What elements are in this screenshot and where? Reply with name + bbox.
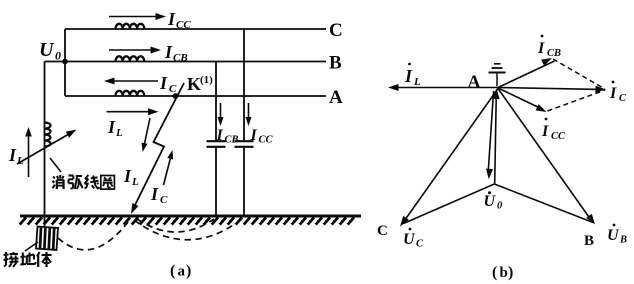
svg-text:L: L xyxy=(16,155,24,167)
svg-text:I: I xyxy=(159,73,168,93)
dashed earth current path fault to CC xyxy=(134,219,242,240)
arrow current IL fault xyxy=(142,118,151,152)
svg-text:): ) xyxy=(186,263,191,280)
svg-text:CC: CC xyxy=(551,131,566,142)
svg-text:C: C xyxy=(160,194,168,206)
svg-text:I: I xyxy=(167,9,176,29)
svg-text:(1): (1) xyxy=(200,74,213,86)
svg-text:U: U xyxy=(484,193,497,210)
svg-text:CC: CC xyxy=(176,19,191,31)
ground symbol phasor xyxy=(489,64,506,86)
svg-text:I: I xyxy=(609,85,617,102)
inductor phase A xyxy=(116,91,145,96)
svg-text:I: I xyxy=(404,66,413,86)
label Ic xyxy=(159,73,177,95)
arrow current Ic on phase A xyxy=(104,78,158,85)
svg-text:I: I xyxy=(8,145,17,165)
svg-text:U: U xyxy=(607,227,620,244)
wire capacitor CB branch upper xyxy=(215,62,217,142)
wire phase line A xyxy=(65,95,326,97)
svg-text:CB: CB xyxy=(547,48,561,59)
arc suppression coil L xyxy=(45,123,51,147)
label C phasor xyxy=(377,223,388,239)
dashed earth current path electrode to fault xyxy=(58,222,128,250)
leader line coil label xyxy=(50,158,61,172)
label phasor IL xyxy=(404,63,421,88)
label (a) xyxy=(170,263,191,280)
label phase C xyxy=(329,20,343,41)
label UB phasor xyxy=(607,224,627,246)
wire phase line C xyxy=(65,28,326,30)
phasor UB vector xyxy=(498,89,595,225)
svg-text:(: ( xyxy=(492,264,497,281)
label IL mid xyxy=(107,117,123,139)
wire capacitor CC branch lower xyxy=(243,147,245,216)
label fault K(1) xyxy=(187,74,213,94)
svg-text:L: L xyxy=(413,76,421,88)
label (b) xyxy=(492,264,513,281)
arrow current Ic fault xyxy=(164,150,174,185)
svg-text:(: ( xyxy=(170,263,175,280)
svg-text:U: U xyxy=(403,231,416,248)
phasor UA up arrow xyxy=(493,89,500,184)
wire fault lightning path xyxy=(131,83,184,214)
svg-text:A: A xyxy=(329,87,343,108)
svg-text:C: C xyxy=(329,20,343,41)
arrow current IL mid xyxy=(107,108,159,115)
label UC phasor xyxy=(403,228,424,250)
phasor UC vector xyxy=(400,89,498,227)
svg-text:B: B xyxy=(584,233,594,249)
svg-text:I: I xyxy=(216,127,224,144)
label ICC phasor xyxy=(541,118,566,142)
label B phasor xyxy=(584,233,594,249)
label Icc xyxy=(167,9,191,31)
svg-text:CB: CB xyxy=(173,52,188,64)
label U0 phasor xyxy=(484,191,504,211)
inductor phase C xyxy=(116,24,145,29)
svg-text:CC: CC xyxy=(259,135,274,146)
wire phase line B xyxy=(45,61,327,63)
svg-text:L: L xyxy=(131,176,139,188)
dashed parallelogram ICB to IC xyxy=(553,59,605,89)
label IL left xyxy=(8,145,24,167)
label jiediti (grounding electrode) xyxy=(4,252,52,267)
label Ic fault xyxy=(150,184,168,206)
wire capacitor CC branch upper xyxy=(243,29,245,141)
arrow current Icc on phase C xyxy=(109,13,166,20)
svg-text:b: b xyxy=(500,265,508,281)
capacitor CC xyxy=(235,141,254,147)
svg-text:): ) xyxy=(508,264,513,281)
phasor IC vector xyxy=(498,86,606,93)
capacitor CB xyxy=(207,141,226,147)
label ICB phasor xyxy=(537,35,561,59)
svg-text:L: L xyxy=(115,127,123,139)
svg-text:CB: CB xyxy=(225,135,239,146)
wire N to C xyxy=(404,184,495,224)
svg-text:I: I xyxy=(150,184,159,204)
dashed earth current path fault to CB xyxy=(137,219,214,232)
svg-text:I: I xyxy=(164,42,173,62)
label Icb capacitor xyxy=(216,127,239,146)
ground surface line xyxy=(20,215,361,218)
wire N to B xyxy=(494,184,593,223)
svg-text:I: I xyxy=(107,117,116,137)
phasor IL arrow xyxy=(388,84,498,91)
label point A xyxy=(468,72,481,92)
svg-text:0: 0 xyxy=(497,201,503,212)
arrow current Icc capacitor xyxy=(246,103,252,126)
node fault on phase A xyxy=(173,93,179,99)
wire source bus vertical xyxy=(64,29,66,96)
svg-text:C: C xyxy=(377,223,388,239)
svg-text:I: I xyxy=(541,123,549,140)
arrow current Icb on phase B xyxy=(109,47,161,54)
label Icc capacitor xyxy=(250,127,274,146)
svg-text:A: A xyxy=(468,72,481,92)
svg-text:U: U xyxy=(39,39,55,61)
label xiaohuxianquan (arc suppression coil) xyxy=(53,175,115,189)
svg-text:I: I xyxy=(537,40,545,57)
leader line electrode label xyxy=(25,242,38,251)
inductor phase B xyxy=(116,56,145,61)
arrow adjustable coil xyxy=(17,130,77,165)
label phase A xyxy=(329,87,343,108)
arrow current Icb capacitor xyxy=(218,103,224,126)
label U0 xyxy=(39,39,61,63)
label Icb xyxy=(164,42,188,64)
node U0 neutral junction xyxy=(62,59,68,65)
phasor ICB vector xyxy=(498,58,555,88)
wire capacitor CB branch lower xyxy=(215,147,217,216)
wire neutral to ground xyxy=(44,62,46,228)
label IL fault xyxy=(123,166,139,188)
ground hatching xyxy=(20,217,354,224)
svg-text:K: K xyxy=(187,74,201,94)
phasor ICC vector xyxy=(498,88,547,112)
svg-text:B: B xyxy=(329,53,342,74)
grounding electrode box xyxy=(36,227,58,251)
svg-text:I: I xyxy=(123,166,132,186)
label IC phasor xyxy=(609,81,627,104)
svg-text:C: C xyxy=(619,93,627,104)
label phase B xyxy=(329,53,342,74)
svg-text:0: 0 xyxy=(55,49,61,63)
svg-text:C: C xyxy=(416,239,424,250)
svg-text:B: B xyxy=(619,235,627,246)
svg-text:a: a xyxy=(178,264,186,280)
svg-text:I: I xyxy=(250,127,258,144)
phasor U0 down arrow xyxy=(486,91,494,179)
dashed parallelogram ICC to IC xyxy=(548,90,606,111)
arrow current IL left xyxy=(25,127,32,177)
